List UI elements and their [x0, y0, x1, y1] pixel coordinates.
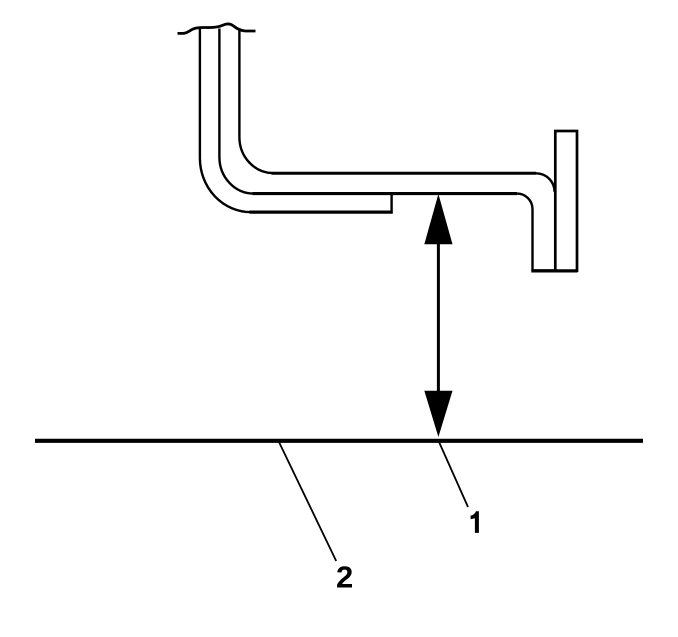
leader line for label 1	[439, 441, 468, 507]
pipe inner contour line: right bend down to bracket	[536, 173, 555, 191]
pipe bottom end edge	[531, 269, 577, 272]
ground line	[35, 439, 643, 443]
pipe outer contour line: bottom horizontal run	[250, 211, 393, 214]
wavy break line at top of pipe	[178, 24, 256, 33]
pipe middle contour line: vertical + elbow arc	[219, 29, 254, 194]
svg-text:2: 2	[336, 560, 353, 595]
dimension arrow bottom head	[424, 391, 452, 437]
pipe inner contour line: vertical + elbow arc	[239, 30, 273, 174]
pipe inner contour line: top horizontal run	[272, 172, 537, 175]
leader line for label 2	[279, 441, 337, 561]
pipe middle contour line: right bend + vertical drop	[517, 194, 533, 271]
pipe middle contour line: horizontal run	[253, 192, 518, 195]
label 1 (drawn glyph)	[471, 511, 479, 533]
bracket plate	[555, 131, 577, 271]
pipe outer contour line: vertical + elbow arc	[200, 29, 251, 213]
dimension arrow top head	[424, 194, 452, 244]
dimension arrow shaft	[437, 243, 440, 392]
pipe outer contour end cap (vertical step up to middle line)	[390, 194, 392, 214]
